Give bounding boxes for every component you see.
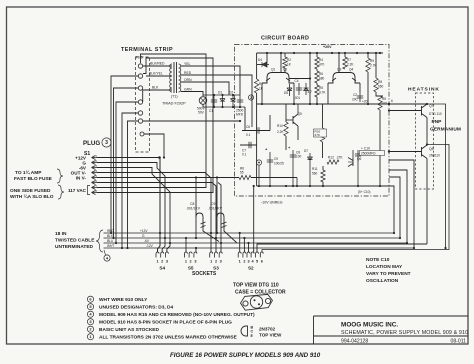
+20V rail bbox=[257, 52, 383, 54]
svg-text:R12: R12 bbox=[328, 156, 334, 160]
resistor R10 2.2K bbox=[284, 122, 288, 136]
diode D1 bbox=[222, 95, 224, 107]
resistor R5b bbox=[315, 85, 319, 97]
terminal lug 1 bbox=[138, 64, 142, 68]
capacitor C7 bbox=[240, 144, 257, 146]
svg-text:FAST BLO FUSE: FAST BLO FUSE bbox=[14, 176, 53, 182]
cable wire BLU bbox=[104, 242, 408, 244]
wire +12V to S4 pin1 bbox=[97, 158, 160, 253]
wire S2 pin1 tap bbox=[239, 233, 241, 253]
svg-text:FIGURE 16 POWER SUPPLY MODELS: FIGURE 16 POWER SUPPLY MODELS 909 AND 91… bbox=[170, 352, 321, 359]
svg-text:C9: C9 bbox=[274, 157, 278, 161]
plug pin 2 G bbox=[92, 161, 98, 165]
svg-text:994-042128: 994-042128 bbox=[341, 339, 368, 345]
svg-text:C6: C6 bbox=[246, 125, 250, 129]
svg-text:0.1: 0.1 bbox=[242, 153, 247, 157]
resistor R7 bbox=[343, 57, 347, 69]
divider feed bbox=[309, 53, 311, 104]
wire -10V unreg to S2 pin4 bbox=[253, 186, 255, 253]
terminal lug 5 bbox=[138, 111, 142, 115]
svg-text:470: 470 bbox=[382, 102, 388, 106]
svg-text:MODEL 909 HAS R15 AND C9 REMOV: MODEL 909 HAS R15 AND C9 REMOVED (NO-10V… bbox=[99, 312, 255, 318]
wire +12V output tap bbox=[262, 145, 449, 253]
svg-text:3: 3 bbox=[105, 140, 108, 146]
svg-text:MOOG MUSIC INC.: MOOG MUSIC INC. bbox=[341, 322, 398, 329]
terminal lug 4 bbox=[138, 100, 142, 104]
svg-text:R9: R9 bbox=[370, 59, 374, 63]
svg-text:2: 2 bbox=[243, 260, 245, 264]
svg-text:-10V UNREG: -10V UNREG bbox=[261, 201, 283, 205]
circled junction bbox=[256, 160, 261, 165]
resistor R12 bbox=[327, 160, 339, 164]
cable wire BLK bbox=[104, 237, 401, 239]
svg-text:UNTERMINATED: UNTERMINATED bbox=[55, 244, 94, 250]
capacitor C9 elec bbox=[269, 152, 271, 170]
lug in small box bbox=[140, 132, 144, 136]
svg-text:100: 100 bbox=[296, 155, 302, 159]
svg-text:+20V: +20V bbox=[323, 45, 332, 49]
svg-text:50V: 50V bbox=[198, 111, 205, 115]
zener D5 bbox=[289, 84, 291, 96]
svg-text:1: 1 bbox=[185, 260, 187, 264]
resistor R6 55 bbox=[239, 175, 251, 179]
wire 117 VAC neutral bbox=[97, 58, 213, 193]
capacitor C12 bbox=[195, 178, 197, 239]
wire S2 pin2 tap bbox=[243, 238, 245, 253]
svg-text:5: 5 bbox=[256, 260, 258, 264]
wire C13 diagonal bbox=[224, 226, 237, 243]
resistor R5 bbox=[378, 96, 382, 110]
wire Q8 collector down bbox=[426, 159, 428, 245]
terminal strip dashed box bbox=[136, 57, 150, 152]
resistor R9 bbox=[366, 58, 370, 72]
svg-text:NOTE C10: NOTE C10 bbox=[366, 257, 390, 263]
svg-text:MFD: MFD bbox=[236, 112, 244, 116]
svg-text:R11: R11 bbox=[312, 167, 318, 171]
rectifier bottom bus bbox=[203, 106, 245, 108]
T1 primary tap BLK bbox=[143, 90, 172, 102]
wire to S3 pins bbox=[97, 183, 216, 253]
terminal lug 3 bbox=[138, 86, 142, 90]
svg-text:BASIC UNIT AS STOCKED: BASIC UNIT AS STOCKED bbox=[99, 327, 160, 333]
note 6 bbox=[87, 296, 93, 302]
svg-text:R5: R5 bbox=[319, 86, 323, 90]
wire board out C bbox=[389, 170, 407, 243]
svg-text:DTG 110: DTG 110 bbox=[429, 112, 442, 116]
svg-text:D2: D2 bbox=[229, 91, 233, 95]
svg-text:LOCATION MAY: LOCATION MAY bbox=[366, 264, 403, 270]
plug pin 4 OUT V- bbox=[92, 171, 98, 175]
svg-text:1: 1 bbox=[156, 260, 158, 264]
resistor R2 bbox=[283, 57, 287, 68]
transistor Q7 DTG 110 bbox=[422, 104, 428, 118]
svg-text:R5: R5 bbox=[382, 97, 386, 101]
svg-text:R8: R8 bbox=[378, 80, 382, 84]
transistor Q8 bbox=[422, 145, 428, 159]
wire OUT V- to S3 bbox=[97, 173, 211, 253]
svg-text:D1: D1 bbox=[218, 91, 222, 95]
resistor R16 27K boxed bbox=[320, 128, 324, 142]
wire lug6 to rectifier common bbox=[143, 120, 240, 122]
title block bbox=[313, 316, 315, 344]
terminal lug 6 bbox=[138, 119, 142, 123]
plug pin 6 bbox=[92, 181, 98, 185]
svg-text:Q7: Q7 bbox=[429, 104, 434, 108]
svg-text:S2: S2 bbox=[248, 266, 254, 271]
wire board to Q7 base bbox=[389, 110, 422, 112]
svg-text:WHT WIRE 910 ONLY: WHT WIRE 910 ONLY bbox=[99, 297, 148, 303]
wire +20 line board to Q7 emitter bbox=[389, 103, 427, 105]
svg-text:27K: 27K bbox=[315, 133, 321, 137]
svg-text:TS 5: TS 5 bbox=[136, 56, 143, 60]
svg-text:ONE SIDE FUSED: ONE SIDE FUSED bbox=[10, 188, 51, 194]
verticals mid board bbox=[296, 178, 298, 187]
resistor R6b bbox=[315, 71, 319, 83]
circled 2 callout bbox=[248, 95, 253, 100]
svg-text:+ C10: + C10 bbox=[361, 147, 370, 151]
svg-text:20C: 20C bbox=[352, 98, 359, 102]
cable wire WHT bbox=[104, 247, 415, 249]
socket S4 bbox=[156, 252, 159, 258]
socket S2 bbox=[238, 252, 241, 258]
pair2 top feed bbox=[338, 53, 340, 73]
svg-text:PLUG: PLUG bbox=[83, 140, 100, 147]
capacitor C13 bbox=[216, 178, 218, 234]
svg-text:C1: C1 bbox=[209, 109, 213, 113]
svg-text:Q1: Q1 bbox=[271, 68, 275, 72]
socket S3 bbox=[210, 252, 213, 258]
wire lug4 to cable BLU bbox=[116, 102, 138, 243]
wire C9 to rail bbox=[269, 170, 271, 186]
svg-text:3: 3 bbox=[194, 260, 196, 264]
note 3 bbox=[87, 319, 93, 325]
plug pin 5 IN V- bbox=[92, 176, 98, 180]
pair2 legs bbox=[327, 83, 329, 104]
wire bus to C6 row bbox=[244, 107, 246, 131]
svg-text:D5: D5 bbox=[284, 91, 288, 95]
svg-text:PNP: PNP bbox=[432, 119, 443, 125]
board mid rail bbox=[257, 103, 389, 105]
svg-text:GRN: GRN bbox=[184, 87, 192, 91]
svg-text:TERMINAL STRIP: TERMINAL STRIP bbox=[121, 47, 173, 53]
capacitor C1 bbox=[213, 95, 215, 107]
wire lug2 to cable RED bbox=[111, 76, 138, 233]
svg-text:1: 1 bbox=[210, 260, 212, 264]
plug pin 1 +12V bbox=[92, 156, 98, 160]
cable wire RED bbox=[104, 232, 395, 234]
svg-text:TRIAD F292P: TRIAD F292P bbox=[162, 102, 186, 106]
T1 primary tap BLK/YEL bbox=[146, 75, 172, 77]
svg-text:ALL TRANSISTORS 2N 3702 UNLESS: ALL TRANSISTORS 2N 3702 UNLESS MARKED OT… bbox=[99, 334, 238, 340]
svg-text:BLK: BLK bbox=[152, 86, 159, 90]
capacitor C2b bbox=[359, 92, 361, 102]
capacitor C4 bbox=[298, 83, 300, 95]
svg-text:100/25: 100/25 bbox=[274, 162, 284, 166]
capacitor C2 bbox=[239, 95, 241, 107]
svg-text:C2: C2 bbox=[353, 93, 357, 97]
svg-text:3: 3 bbox=[166, 260, 168, 264]
svg-text:WHT: WHT bbox=[107, 244, 115, 248]
svg-text:RED: RED bbox=[184, 71, 192, 75]
svg-text:-6V: -6V bbox=[144, 239, 150, 243]
svg-text:+20: +20 bbox=[362, 100, 368, 104]
svg-text:55: 55 bbox=[240, 171, 244, 175]
wire Q8 coll to S2 pin5 bbox=[257, 244, 427, 253]
svg-text:R4: R4 bbox=[319, 58, 323, 62]
pair1 legs bbox=[261, 83, 263, 104]
svg-text:560: 560 bbox=[312, 172, 318, 176]
svg-text:.27K: .27K bbox=[336, 156, 343, 160]
svg-text:OSCILLATION: OSCILLATION bbox=[366, 278, 399, 284]
svg-text:18 IN: 18 IN bbox=[55, 231, 67, 237]
svg-text:TOP VIEW DTG 110: TOP VIEW DTG 110 bbox=[233, 283, 279, 289]
svg-text:IN V-: IN V- bbox=[76, 175, 87, 180]
capacitor C8 elec bbox=[292, 150, 294, 163]
zener D6 bbox=[305, 83, 307, 95]
svg-text:R6: R6 bbox=[319, 72, 323, 76]
svg-text:R10: R10 bbox=[277, 124, 283, 128]
svg-text:3: 3 bbox=[247, 260, 249, 264]
svg-text:(T1): (T1) bbox=[171, 95, 178, 99]
117VAC pin bracket bbox=[88, 186, 91, 195]
note 5 bbox=[87, 304, 93, 310]
svg-text:SCHEMATIC, POWER SUPPLY MODEL: SCHEMATIC, POWER SUPPLY MODEL 909 & 910 bbox=[341, 330, 468, 336]
capacitor C10 bbox=[357, 150, 359, 162]
plug pin 7 bbox=[92, 186, 98, 190]
heatsink dashed box bbox=[416, 93, 434, 189]
wire board out D bbox=[389, 160, 414, 248]
T1 primary tap BLK/RED bbox=[143, 65, 172, 67]
svg-text:2: 2 bbox=[250, 96, 252, 100]
svg-text:C8: C8 bbox=[190, 202, 194, 206]
resistor R8 bbox=[374, 78, 378, 92]
svg-text:YEL: YEL bbox=[184, 62, 191, 66]
svg-text:117 VAC: 117 VAC bbox=[68, 188, 87, 193]
svg-text:660: 660 bbox=[378, 85, 384, 89]
svg-text:08-011: 08-011 bbox=[451, 339, 467, 345]
svg-text:S3: S3 bbox=[213, 266, 219, 271]
svg-text:4.7K: 4.7K bbox=[319, 91, 326, 95]
svg-text:2: 2 bbox=[190, 260, 192, 264]
resistor R4 bbox=[315, 57, 319, 69]
terminal lug 2 bbox=[138, 74, 142, 78]
wire S5 pin taps bbox=[185, 238, 187, 253]
T1 secondary tap GRN bbox=[181, 92, 203, 97]
plug pin 3 -6V bbox=[92, 166, 98, 170]
svg-text:SOCKETS: SOCKETS bbox=[192, 271, 217, 277]
svg-text:BLK/YEL: BLK/YEL bbox=[149, 72, 163, 76]
svg-text:2N5110: 2N5110 bbox=[429, 154, 440, 158]
plug pin 8 bbox=[92, 191, 98, 195]
svg-text:R2: R2 bbox=[287, 58, 291, 62]
svg-text:2.2K: 2.2K bbox=[347, 63, 354, 67]
differential pair Q1 Q2 bbox=[262, 73, 294, 84]
svg-text:-12V: -12V bbox=[146, 244, 154, 248]
svg-text:C4: C4 bbox=[295, 79, 299, 83]
note 1 bbox=[87, 334, 93, 340]
wire C12 diagonal bbox=[203, 226, 219, 242]
svg-text:BLU: BLU bbox=[107, 239, 114, 243]
svg-text:+12V: +12V bbox=[140, 229, 148, 233]
svg-text:Q8: Q8 bbox=[429, 147, 434, 151]
varistor RV1 bbox=[199, 97, 207, 105]
circled 4 callout bbox=[104, 255, 110, 261]
note 2 bbox=[87, 326, 93, 332]
svg-text:TO 1¾ AMP: TO 1¾ AMP bbox=[15, 169, 42, 176]
transistor Q6 bbox=[348, 158, 353, 167]
svg-text:HEATSINK: HEATSINK bbox=[408, 87, 440, 93]
circuit board dash-dot border bbox=[235, 45, 390, 197]
svg-text:2.2K: 2.2K bbox=[277, 130, 284, 134]
svg-text:C9: C9 bbox=[211, 202, 215, 206]
svg-text:VARY TO PREVENT: VARY TO PREVENT bbox=[366, 271, 411, 277]
svg-text:.001/1KV: .001/1KV bbox=[208, 207, 223, 211]
wire lug6 drop bbox=[128, 121, 139, 248]
wire S2 pin3 tap bbox=[248, 243, 250, 253]
wire -6V to S4 pin3 bbox=[97, 168, 170, 253]
diode D4 bbox=[266, 53, 268, 61]
svg-text:S4: S4 bbox=[159, 266, 165, 271]
transformer T1 core bbox=[173, 62, 175, 93]
svg-text:680: 680 bbox=[319, 77, 325, 81]
T1 secondary tap RED bbox=[181, 75, 252, 127]
svg-text:6: 6 bbox=[261, 260, 263, 264]
svg-text:.001/1KV: .001/1KV bbox=[186, 207, 201, 211]
svg-text:2N3702: 2N3702 bbox=[259, 327, 276, 332]
zener D7 bbox=[309, 153, 311, 167]
differential pair Q3 Q4 bbox=[328, 73, 360, 84]
svg-text:R7: R7 bbox=[347, 58, 351, 62]
wire board out A bbox=[389, 186, 394, 233]
svg-text:UNUSED DESIGNATORS: D3, D4: UNUSED DESIGNATORS: D3, D4 bbox=[99, 304, 174, 310]
left board rail with R1 bbox=[256, 53, 258, 79]
diode D2 bbox=[232, 95, 234, 107]
T1 secondary tap ORN bbox=[181, 82, 229, 95]
svg-text:2500MFD: 2500MFD bbox=[361, 152, 376, 156]
wire lug5 to cable WHT bbox=[122, 113, 138, 248]
svg-text:0.1: 0.1 bbox=[246, 133, 251, 137]
cable brace bbox=[96, 230, 103, 252]
svg-text:MODEL 910 HAS 8-PIN SOCKET IN: MODEL 910 HAS 8-PIN SOCKET IN PLACE OF 8… bbox=[99, 319, 232, 325]
svg-text:6: 6 bbox=[391, 99, 393, 103]
svg-text:3: 3 bbox=[220, 260, 222, 264]
wire pair1 to divider bbox=[289, 78, 310, 80]
svg-text:S5: S5 bbox=[188, 266, 194, 271]
rectifier top bus bbox=[203, 94, 240, 96]
T1 primary winding bbox=[170, 64, 172, 92]
wire small box lug to +12V row bbox=[144, 134, 164, 158]
svg-text:TOP VIEW: TOP VIEW bbox=[259, 333, 282, 338]
wire IN V- long run bbox=[97, 177, 239, 179]
resistor R11 560 bbox=[321, 170, 325, 182]
capacitor C6 bbox=[242, 130, 270, 132]
note 4 bbox=[87, 311, 93, 317]
wire lug3 to cable BLK bbox=[114, 88, 139, 238]
wire +20 outer drop bbox=[427, 104, 446, 248]
2N3702 package top view bbox=[241, 326, 248, 336]
transistor Q5 bbox=[293, 114, 298, 126]
wire board out B bbox=[389, 177, 400, 238]
svg-text:2: 2 bbox=[161, 260, 163, 264]
wire G to S4 pin2 bbox=[97, 163, 165, 253]
T1 secondary winding bbox=[179, 64, 181, 92]
svg-text:(5+ C10): (5+ C10) bbox=[358, 190, 371, 194]
svg-text:CIRCUIT BOARD: CIRCUIT BOARD bbox=[261, 36, 309, 42]
svg-text:WITH ¼A SLO BLO: WITH ¼A SLO BLO bbox=[10, 193, 54, 200]
svg-text:BLK/RED: BLK/RED bbox=[150, 62, 165, 66]
wire Q8 base to C10 bbox=[389, 151, 422, 153]
circled 3 callout bbox=[102, 138, 111, 147]
svg-text:ORN: ORN bbox=[184, 78, 192, 82]
svg-text:470: 470 bbox=[319, 63, 325, 67]
svg-text:.001: .001 bbox=[294, 96, 300, 100]
svg-text:2: 2 bbox=[215, 260, 217, 264]
wire Q7 collector to Q8 emitter bbox=[426, 118, 428, 146]
svg-text:TWISTED CABLE: TWISTED CABLE bbox=[55, 238, 95, 244]
wire 117 VAC hot bbox=[97, 54, 206, 188]
svg-text:D7: D7 bbox=[304, 149, 308, 153]
board common rail bbox=[257, 185, 389, 187]
svg-text:1: 1 bbox=[239, 260, 241, 264]
svg-text:D4: D4 bbox=[258, 58, 262, 62]
svg-text:Q4: Q4 bbox=[349, 68, 353, 72]
socket S5 bbox=[184, 252, 187, 258]
pair1 top feed bbox=[280, 53, 282, 73]
T1 secondary tap YEL bbox=[181, 66, 240, 95]
